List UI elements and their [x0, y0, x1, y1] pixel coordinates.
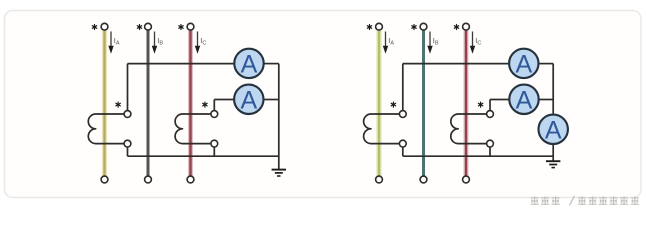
terminal TA3 S2 [399, 140, 406, 147]
terminal L1-C top [187, 23, 194, 30]
current transformer TA1 secondary winding [88, 114, 124, 144]
svg-text:A: A [240, 86, 257, 114]
wire CT1 S1 to top rail [127, 64, 129, 111]
polarity mark TA3 S1 [391, 102, 395, 107]
svg-text:A: A [515, 50, 532, 78]
phase conductor L2-A (yellow-green) [376, 30, 381, 176]
terminal L1-A top [101, 23, 108, 30]
terminal L2-A top [376, 23, 383, 30]
phase conductor L1-B (black) [147, 30, 150, 176]
polarity mark TA4 S1 [478, 102, 482, 107]
current arrow IA right [383, 32, 388, 54]
current transformer TA3 secondary winding [364, 114, 400, 144]
phase conductor L2-C (red) [464, 30, 469, 176]
polarity mark L1-B [137, 25, 141, 30]
ammeter A4 [509, 85, 538, 115]
terminal L2-C top [463, 23, 470, 30]
terminal TA1 S2 [124, 140, 131, 147]
wire A3 to return [539, 63, 554, 65]
ammeter A5 [539, 115, 568, 145]
polarity mark L2-C [454, 25, 458, 30]
current arrow IB [152, 32, 157, 54]
wire CT4 S2 down [489, 147, 491, 156]
terminal TA1 S1 [124, 111, 131, 118]
current arrow IC [195, 32, 200, 54]
polarity mark L1-C [179, 25, 183, 30]
wire return line to ground [278, 64, 280, 170]
phase conductor L1-C (red) [188, 30, 193, 176]
wire CT2 S1 up [213, 100, 215, 111]
terminal TA2 S2 [211, 140, 218, 147]
wire A2 to return [264, 99, 279, 101]
current arrow IB right [427, 32, 432, 54]
polarity mark L2-A [367, 25, 371, 30]
terminal TA4 S2 [487, 140, 494, 147]
phase conductor L1-A (yellow) [102, 30, 107, 176]
current transformer TA4 secondary winding [451, 114, 487, 144]
current arrow IA [108, 32, 113, 54]
svg-text:A: A [545, 116, 562, 144]
current transformer TA2 secondary winding [175, 114, 211, 144]
polarity mark TA1 S1 [116, 102, 120, 107]
polarity mark L1-A [92, 25, 96, 30]
wire return to ammeter A5 [552, 64, 554, 115]
ammeter A2 [234, 85, 263, 115]
wire A4 to return [539, 99, 554, 101]
phase conductor L2-B (teal) [422, 30, 425, 176]
current arrow IC right [470, 32, 475, 54]
svg-text:A: A [516, 86, 533, 114]
ground right [546, 161, 560, 167]
wire CT1 S2 down [127, 147, 129, 156]
wire CT3 S2 down [402, 147, 404, 156]
wire to ammeter A4 [490, 99, 509, 101]
wire top rail to ammeter A1 [128, 63, 235, 65]
ammeter A3 [509, 49, 538, 79]
wire CT2 S2 down [213, 147, 215, 156]
wire to ammeter A2 [214, 99, 234, 101]
terminal L2-C bottom [463, 176, 470, 183]
ground left [272, 170, 286, 176]
terminal L1-C bottom [187, 176, 194, 183]
wire bottom common rail [403, 155, 553, 157]
wire bottom common rail [128, 155, 279, 157]
terminal TA2 S1 [211, 111, 218, 118]
polarity mark L2-B [412, 25, 416, 30]
terminal L1-B top [145, 23, 152, 30]
terminal TA4 S1 [487, 111, 494, 118]
wire A5 to ground [552, 144, 554, 161]
wire A1 to return [264, 63, 279, 65]
wire top rail to ammeter A3 [403, 63, 510, 65]
terminal L1-B bottom [145, 176, 152, 183]
polarity mark TA2 S1 [203, 102, 207, 107]
ammeter A1 [234, 49, 263, 79]
wire CT4 S1 up [489, 100, 491, 111]
svg-text:A: A [241, 50, 258, 78]
terminal L2-B bottom [420, 176, 427, 183]
terminal L2-A bottom [376, 176, 383, 183]
terminal L2-B top [420, 23, 427, 30]
wire CT3 S1 to top rail [402, 64, 404, 111]
terminal L1-A bottom [101, 176, 108, 183]
watermark text bottom right [531, 196, 640, 206]
terminal TA3 S1 [399, 111, 406, 118]
